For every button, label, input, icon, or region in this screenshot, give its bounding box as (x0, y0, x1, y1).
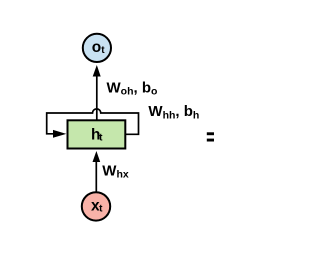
svg-text:Woh, bo: Woh, bo (107, 79, 158, 97)
svg-text:Whh, bh: Whh, bh (148, 103, 199, 121)
svg-text:Whx: Whx (102, 162, 129, 180)
